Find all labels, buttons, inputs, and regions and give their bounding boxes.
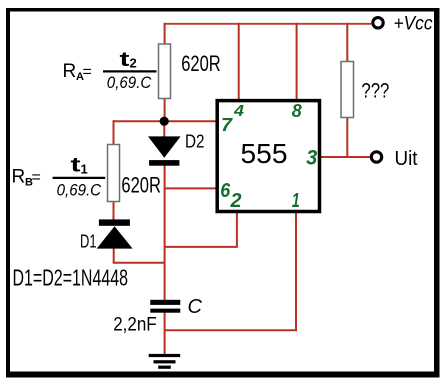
wire pin2 — [164, 212, 237, 247]
svg-text:Uit: Uit — [395, 148, 418, 170]
ground — [149, 354, 181, 369]
svg-text:8: 8 — [292, 101, 302, 121]
svg-text:6: 6 — [220, 180, 231, 202]
wire pin4 — [238, 23, 240, 100]
capacitor C — [150, 300, 180, 313]
svg-text:=: = — [83, 64, 92, 81]
svg-text:620R: 620R — [181, 51, 221, 76]
wire node to D2 — [163, 121, 165, 137]
label RA formula — [63, 49, 157, 92]
terminal Uit — [371, 152, 381, 162]
resistor RA 620R — [159, 44, 171, 99]
svg-text:7: 7 — [221, 114, 234, 135]
svg-text:1: 1 — [292, 190, 300, 212]
wire Rx top — [346, 23, 348, 62]
diode D2 (cathode down) — [148, 136, 181, 165]
svg-text:2: 2 — [230, 190, 242, 212]
svg-text:555: 555 — [241, 138, 288, 169]
op IC U1 555 box — [217, 101, 319, 212]
svg-text:t: t — [120, 49, 130, 71]
wire top Vcc bus — [165, 23, 372, 25]
wire pin1 — [164, 212, 296, 331]
svg-text:D1: D1 — [80, 231, 97, 252]
svg-text:D1=D2=1N4448: D1=D2=1N4448 — [13, 265, 129, 291]
svg-text:=: = — [32, 169, 41, 186]
wire cap to ground — [164, 312, 166, 355]
wire D2 cathode down to cap — [164, 165, 166, 301]
resistor Rx ??? — [341, 62, 354, 118]
svg-text:0,69.C: 0,69.C — [107, 73, 152, 92]
wire node to pin7 — [114, 120, 216, 122]
wire RB bottom to D1 — [113, 202, 115, 221]
wire pin8 — [296, 23, 298, 100]
svg-text:2,2nF: 2,2nF — [113, 315, 157, 336]
svg-text:C: C — [188, 296, 203, 318]
wire pin3 to Uit — [320, 156, 370, 158]
wire RA bottom to node — [164, 98, 166, 121]
svg-text:0,69.C: 0,69.C — [57, 181, 102, 200]
svg-text:???: ??? — [361, 79, 389, 102]
svg-text:2: 2 — [130, 56, 137, 71]
wire RA top — [164, 23, 166, 45]
resistor RB 620R — [108, 145, 120, 202]
svg-text:D2: D2 — [185, 131, 205, 152]
svg-text:4: 4 — [233, 103, 244, 120]
svg-text:R: R — [63, 61, 77, 82]
label RB formula — [12, 155, 106, 200]
svg-text:t: t — [71, 155, 81, 177]
svg-text:3: 3 — [306, 147, 317, 170]
wire RB top — [113, 120, 115, 144]
diode D1 (cathode up) — [97, 219, 133, 248]
wire pin6 — [164, 187, 216, 189]
svg-text:+Vcc: +Vcc — [394, 13, 433, 34]
wire D1 anode down-right — [114, 248, 165, 263]
svg-text:620R: 620R — [121, 173, 160, 198]
svg-text:R: R — [12, 167, 26, 188]
svg-text:1: 1 — [81, 162, 88, 177]
node junction dot — [160, 117, 169, 126]
terminal +Vcc — [373, 18, 383, 28]
wire Rx bottom — [346, 117, 348, 157]
